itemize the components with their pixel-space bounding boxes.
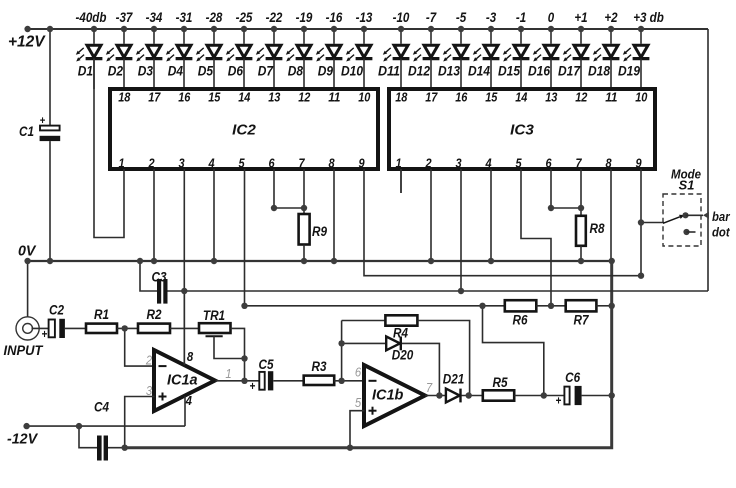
svg-text:0V: 0V [18,243,37,260]
wire IC2 pin9 mode line to IC3 pin9 [364,169,641,276]
capacitor C2 (electrolytic) [42,303,65,342]
svg-text:+12V: +12V [8,34,46,51]
IC IC2 (LED driver) [110,89,378,169]
svg-text:IC1a: IC1a [167,372,198,388]
svg-text:-28: -28 [206,10,223,25]
wire IC1a non-inverting input to ground rail [125,397,155,448]
wire IC2 pin5 down to signal line [244,169,246,306]
LED D1 [76,29,103,89]
svg-text:8: 8 [187,349,194,364]
svg-text:0: 0 [548,10,555,25]
svg-text:+: + [42,329,48,341]
resistor R3 [304,359,335,385]
wire IC3 pin8 to 0V [610,169,612,261]
svg-text:3: 3 [455,156,461,170]
svg-text:1: 1 [395,156,401,170]
svg-text:-25: -25 [236,10,253,25]
svg-text:dot: dot [712,224,730,239]
svg-text:D10: D10 [341,63,363,78]
LED D14 [468,29,499,89]
svg-text:17: 17 [425,90,438,104]
trimmer TR1 [199,308,231,336]
wire IC3 pin2 to 0V [430,169,432,261]
wire IC3 pin3 to V+ line [460,169,462,291]
wire R7 to 0V vertical [596,305,611,307]
svg-text:R6: R6 [513,312,528,327]
svg-text:D12: D12 [408,63,430,78]
svg-text:4: 4 [485,156,492,170]
svg-text:D5: D5 [198,63,214,78]
svg-text:+3 db: +3 db [633,10,664,25]
LED D9 [316,29,343,89]
wire C1 top lead from +12V rail [49,29,51,126]
wire IC3 pin5 jog to signal line [521,169,551,306]
svg-text:-12V: -12V [7,431,39,448]
LED D6 [226,29,253,89]
svg-text:R9: R9 [312,224,327,239]
svg-text:7: 7 [298,156,305,170]
svg-text:+: + [556,396,562,408]
LED D12 [408,29,439,89]
LED D18 [588,29,619,89]
svg-text:D7: D7 [258,63,274,78]
resistor R5 [483,375,514,401]
wire TR1 wiper to divider node [214,336,245,358]
svg-text:R5: R5 [493,375,508,390]
wire IC2 pin3 down to V+ line and on to IC1a pin8 [183,169,185,365]
wire R2 to TR1 [170,327,199,329]
wire IC3 pin9 to mode switch and IC2 pin9 line [640,169,642,276]
LED D19 [618,29,649,89]
LED D2 [106,29,133,89]
svg-text:C2: C2 [49,303,64,318]
svg-text:D17: D17 [558,63,581,78]
junction dots on 0V rail [24,258,615,264]
svg-text:C4: C4 [94,400,109,415]
svg-text:D6: D6 [228,63,244,78]
svg-text:16: 16 [178,90,191,104]
wire D20 to IC1b output [402,343,440,395]
svg-text:-37: -37 [116,10,134,25]
LED D17 [558,29,589,89]
capacitor C5 (electrolytic) [250,357,274,393]
svg-text:6: 6 [268,156,275,170]
switch S1 mode (bar/dot) [641,166,709,246]
wire C1 bottom lead to 0V rail [49,141,51,261]
svg-text:17: 17 [148,90,161,104]
capacitor C4 [94,400,109,461]
svg-text:8: 8 [605,156,611,170]
wire R4 to D21 cathode node [417,321,469,396]
svg-text:R3: R3 [312,359,327,374]
svg-text:-19: -19 [296,10,313,25]
svg-text:6: 6 [545,156,552,170]
wire D21 to R5 [462,395,483,397]
svg-text:D15: D15 [498,63,520,78]
svg-text:-5: -5 [456,10,467,25]
resistor R1 [86,307,117,333]
svg-text:14: 14 [515,90,527,104]
svg-text:12: 12 [298,90,310,104]
svg-text:C3: C3 [152,270,167,285]
svg-text:4: 4 [185,393,193,408]
svg-text:D21: D21 [443,372,465,387]
junction dots on +12V rail [24,26,644,32]
svg-text:5: 5 [238,156,245,170]
wire C3 left lead stub from 0V rail [140,261,157,291]
svg-text:-10: -10 [393,10,410,25]
wire IC2 pin7 down to R9 [303,169,305,214]
svg-text:+1: +1 [574,10,587,25]
op-amp IC1a [154,350,215,411]
wire V+ line from C3 to right edge (+12V) [168,290,709,292]
wire to R4 [342,320,386,322]
diode D20 [386,337,413,363]
svg-text:+: + [40,115,46,127]
svg-text:10: 10 [635,90,647,104]
capacitor C6 (electrolytic) [556,370,582,408]
svg-text:-34: -34 [146,10,163,25]
svg-text:D1: D1 [78,63,93,78]
LED D8 [286,29,313,89]
wire -12V to C4 [79,426,97,448]
svg-text:11: 11 [605,90,617,104]
wire R6 to R7 [536,305,565,307]
wire C6 to 0V vertical [582,395,612,397]
wire rectified signal jog up to divider line [483,306,544,396]
LED D11 [378,29,409,89]
svg-text:-13: -13 [356,10,373,25]
wire IC1b output to D21 [425,395,446,397]
wire IC1a output to C5 [216,380,260,382]
svg-text:IC2: IC2 [232,121,256,138]
svg-text:TR1: TR1 [203,308,225,323]
resistor R8 [576,216,605,246]
svg-text:D4: D4 [168,63,184,78]
resistor R9 [299,214,328,245]
capacitor C1 (electrolytic) [19,115,60,141]
wire R5 to C6 [514,395,564,397]
wire ground return (thick) from 0V rail down and left to C4 [125,261,612,448]
wire +12V rail [28,28,708,30]
LED D10 [341,29,372,89]
wire 0V rail down to INPUT jack sleeve [27,261,29,317]
LED D15 [498,29,529,89]
LED D3 [136,29,163,89]
svg-text:6: 6 [355,365,362,380]
svg-text:D13: D13 [438,63,460,78]
svg-text:18: 18 [118,90,130,104]
svg-text:4: 4 [208,156,215,170]
svg-text:13: 13 [268,90,280,104]
wire IC2 pin4 to 0V [213,169,215,261]
svg-text:D20: D20 [392,347,414,362]
capacitor C3 [152,270,168,304]
resistor R6 [505,300,537,327]
svg-text:D16: D16 [528,63,550,78]
wire C5 to R3 [273,380,303,382]
svg-text:-16: -16 [326,10,343,25]
svg-text:10: 10 [358,90,370,104]
IC IC3 (LED driver) [389,89,655,169]
svg-text:IC1b: IC1b [372,387,404,403]
svg-text:15: 15 [208,90,221,104]
resistor R4 [385,315,417,340]
wire 0V rail [28,260,612,262]
LED D13 [438,29,469,89]
wire jack tip to C2 [32,327,49,329]
svg-text:-7: -7 [426,10,437,25]
wire TR1 right end down to output node [231,328,245,380]
svg-text:R7: R7 [574,312,590,327]
svg-text:2: 2 [148,156,155,170]
LED D7 [256,29,283,89]
wire R8 bottom to 0V [580,246,582,261]
svg-text:9: 9 [358,156,364,170]
svg-text:-22: -22 [266,10,283,25]
svg-text:2: 2 [425,156,432,170]
svg-text:C1: C1 [19,124,34,139]
svg-text:1: 1 [118,156,124,170]
LED D16 [528,29,559,89]
wire IC2 pin8 to 0V [333,169,335,261]
svg-text:12: 12 [575,90,587,104]
svg-text:D9: D9 [318,63,334,78]
wire IC3 pin4 to 0V [490,169,492,261]
svg-text:5: 5 [515,156,522,170]
svg-text:9: 9 [635,156,641,170]
wire IC3 pin1 stub [400,169,402,193]
svg-text:-31: -31 [176,10,193,25]
wire IC2 pin6 to pin7 junction [274,169,304,208]
svg-text:D14: D14 [468,63,490,78]
wire feedback node vertical (R4/D20 to inverting input) [341,321,343,381]
wire input node down to IC1a inverting input [125,328,155,366]
svg-text:3: 3 [178,156,184,170]
svg-text:+: + [250,381,256,393]
wire to D20 [342,342,386,344]
svg-text:15: 15 [485,90,498,104]
svg-text:S1: S1 [679,177,695,192]
svg-text:C6: C6 [565,370,580,385]
wire IC2 pin2 to 0V [153,169,155,261]
svg-text:D8: D8 [288,63,304,78]
wire +12V right vertical to bar switch and V+ line [707,29,709,291]
diode D21 [443,372,465,403]
wire IC1b non-inverting input to ground rail [350,411,365,448]
svg-text:-1: -1 [516,10,526,25]
wire IC1a pin4 stub to -12V line [184,396,186,426]
resistor R7 [566,300,597,327]
wire R9 bottom to 0V [303,245,305,262]
svg-text:D19: D19 [618,63,640,78]
svg-text:-3: -3 [486,10,497,25]
svg-text:8: 8 [328,156,334,170]
svg-text:D3: D3 [138,63,154,78]
svg-text:7: 7 [575,156,582,170]
svg-text:11: 11 [328,90,340,104]
svg-text:-40db: -40db [76,10,107,25]
svg-text:13: 13 [545,90,557,104]
svg-text:C5: C5 [259,357,274,372]
svg-text:IC3: IC3 [510,121,534,138]
connector INPUT jack [4,317,45,358]
svg-text:R8: R8 [590,221,605,236]
op-amp IC1b [364,365,425,426]
wire signal line to IC2 pin5 and R6 [245,305,505,307]
wire R3 to IC1b inverting input [334,380,364,382]
svg-text:D2: D2 [108,63,124,78]
wire C2 to R1 [65,327,86,329]
wire IC3 pin7 down to R8 [580,169,582,216]
svg-text:R4: R4 [393,325,408,340]
wire IC2 pin1 jog to LED D1 cathode column [94,59,124,238]
svg-text:16: 16 [455,90,468,104]
wire R1 to R2 through node [117,327,138,329]
svg-text:1: 1 [225,366,231,381]
wire C4 to ground rail [108,447,125,449]
wire -12V feed line [27,425,185,427]
svg-text:14: 14 [238,90,250,104]
svg-text:D18: D18 [588,63,610,78]
svg-text:bar: bar [712,209,730,224]
svg-text:18: 18 [395,90,407,104]
svg-text:5: 5 [355,395,362,410]
svg-text:R1: R1 [94,307,109,322]
svg-text:R2: R2 [147,307,162,322]
LED D4 [166,29,193,89]
svg-text:D11: D11 [378,63,400,78]
svg-text:2: 2 [145,352,153,367]
resistor R2 [138,307,170,333]
svg-text:INPUT: INPUT [4,343,45,358]
wire IC1a pin8 stub (drawn with IC2 pin3 column) [183,291,185,365]
wire IC3 pin6 to pin7 junction [551,169,581,208]
svg-text:+2: +2 [604,10,617,25]
svg-text:7: 7 [426,380,433,395]
LED D5 [196,29,223,89]
